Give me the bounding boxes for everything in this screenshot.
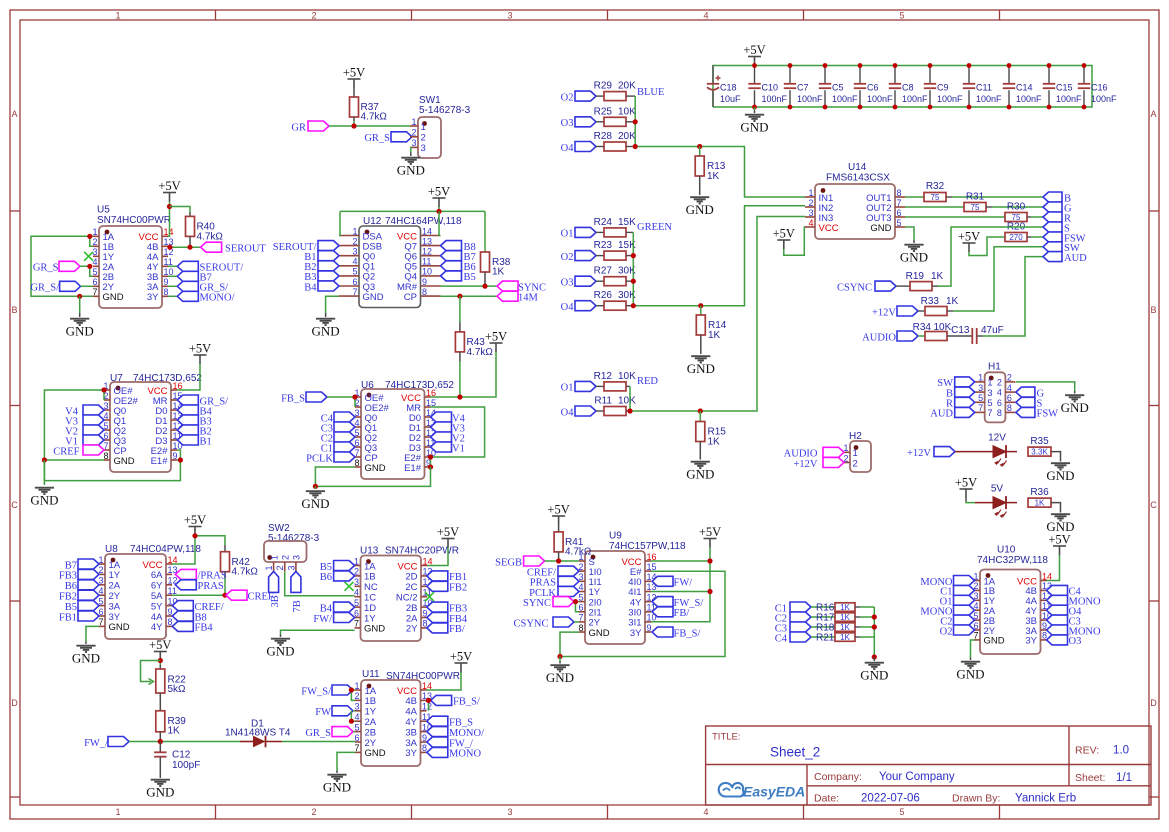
svg-text:O2: O2 <box>561 252 574 263</box>
svg-text:FW_/: FW_/ <box>449 738 473 749</box>
svg-text:GR_S: GR_S <box>364 133 390 144</box>
svg-text:2Y: 2Y <box>365 738 377 749</box>
resistor R43 4.7k (from 14M/CP) <box>459 296 461 322</box>
svg-text:6: 6 <box>92 277 97 287</box>
svg-text:A: A <box>11 109 17 119</box>
svg-text:AUDIO: AUDIO <box>862 332 896 343</box>
svg-text:1B: 1B <box>365 696 377 707</box>
svg-text:R29: R29 <box>594 81 613 92</box>
svg-text:B1: B1 <box>200 436 212 447</box>
wire FW_S to pins 1-2 <box>353 689 355 691</box>
svg-text:8: 8 <box>168 617 173 627</box>
resistor R24 15K <box>596 231 604 233</box>
svg-text:+5V: +5V <box>437 525 459 539</box>
netflags U13 right <box>427 571 448 581</box>
junction U5 pin1 <box>87 234 92 239</box>
svg-text:REV:: REV: <box>1075 745 1099 757</box>
svg-text:C12: C12 <box>172 750 191 761</box>
wire +5V to U14 VCC pin4 <box>784 227 805 255</box>
svg-text:O3: O3 <box>561 278 574 289</box>
resistor R19 1K <box>896 285 910 287</box>
svg-text:7: 7 <box>92 287 97 297</box>
ground (U7) <box>43 460 45 485</box>
svg-text:GND: GND <box>686 202 714 217</box>
resistor R30 75 <box>905 216 1005 218</box>
resistor R12 10K <box>596 385 604 387</box>
svg-text:8: 8 <box>354 458 359 468</box>
svg-text:7: 7 <box>973 631 978 641</box>
resistor R15 1K <box>699 411 701 422</box>
netflag SEROUT <box>201 242 222 252</box>
svg-text:R21: R21 <box>816 633 835 644</box>
ground (R15) <box>691 462 710 468</box>
junction R40 bottom <box>187 245 192 250</box>
svg-text:13: 13 <box>422 236 432 246</box>
svg-text:2: 2 <box>311 11 316 21</box>
svg-text:1: 1 <box>269 555 279 560</box>
svg-text:4A: 4A <box>405 707 417 718</box>
svg-text:SEROUT: SEROUT <box>225 244 266 255</box>
svg-text:4: 4 <box>997 388 1002 398</box>
svg-text:12: 12 <box>422 247 432 257</box>
svg-text:11: 11 <box>422 257 431 267</box>
junction R15 <box>698 408 703 413</box>
svg-text:GND: GND <box>870 223 891 234</box>
svg-text:B5: B5 <box>464 272 476 283</box>
svg-text:3Y: 3Y <box>630 628 642 639</box>
netflags U8 right CREF/ B8 FB4 <box>172 601 193 611</box>
svg-text:3A: 3A <box>405 738 417 749</box>
svg-text:GND: GND <box>1061 400 1089 415</box>
netflag /PRAS (U8 pin13) <box>175 569 196 579</box>
wire R33 to SW <box>947 310 953 312</box>
svg-text:5: 5 <box>978 393 983 403</box>
svg-text:4: 4 <box>92 257 97 267</box>
netflags U11 right <box>427 716 448 726</box>
svg-text:1Y: 1Y <box>109 570 121 581</box>
svg-text:EasyEDA: EasyEDA <box>743 784 805 800</box>
svg-text:9: 9 <box>164 277 169 287</box>
svg-text:VCC: VCC <box>142 560 162 571</box>
svg-text:Your Company: Your Company <box>879 771 955 783</box>
svg-text:9: 9 <box>168 607 173 617</box>
capacitor C16 100nF <box>1083 66 1085 84</box>
svg-text:C7: C7 <box>797 83 809 93</box>
svg-text:75: 75 <box>971 203 980 212</box>
resistor R11 10K <box>596 410 604 412</box>
wire U7 pins 9-10 ground loop <box>44 450 180 481</box>
wire U5 pin13 to SEROUT <box>168 246 201 248</box>
wire R35 to gnd <box>1051 452 1061 462</box>
svg-text:7: 7 <box>354 743 359 753</box>
wire +5V to U7 VCC <box>177 364 200 390</box>
svg-text:5: 5 <box>899 807 904 817</box>
svg-text:5kΩ: 5kΩ <box>168 684 187 695</box>
svg-text:5: 5 <box>897 218 902 228</box>
wire GR_S to pins 4-5 <box>80 266 93 276</box>
svg-text:AUD: AUD <box>1064 253 1087 264</box>
wire GR to SW1 pin1 <box>329 125 410 127</box>
svg-text:6: 6 <box>997 398 1002 408</box>
ground (H1) <box>1074 391 1076 394</box>
netflags U9 right <box>652 576 673 586</box>
svg-text:GND: GND <box>984 636 1005 647</box>
svg-text:O1: O1 <box>561 229 574 240</box>
capacitor C13 47uF <box>947 335 972 337</box>
svg-text:1: 1 <box>264 565 274 570</box>
potentiometer R22 5k <box>159 665 161 669</box>
svg-text:3: 3 <box>352 247 357 257</box>
svg-text:6: 6 <box>578 603 583 613</box>
resistor R23 15K <box>596 255 604 257</box>
svg-text:14: 14 <box>422 226 432 236</box>
svg-text:+5V: +5V <box>1048 533 1070 547</box>
svg-text:+5V: +5V <box>149 638 171 652</box>
no-connect X U5 pin3 <box>84 252 93 261</box>
wire GREEN net bus <box>633 206 805 306</box>
netflag SYNC <box>497 281 518 291</box>
resistor R40 4.7k <box>189 212 191 216</box>
svg-text:7B: 7B <box>292 600 303 612</box>
resistor R14 1K <box>700 306 702 315</box>
ground (R36) <box>1051 514 1070 520</box>
svg-text:PRAS: PRAS <box>198 581 224 592</box>
svg-text:FW/: FW/ <box>313 614 332 625</box>
svg-text:A: A <box>1150 109 1156 119</box>
svg-text:7: 7 <box>578 613 583 623</box>
svg-text:B6: B6 <box>320 572 332 583</box>
svg-text:7: 7 <box>978 403 983 413</box>
svg-text:FW/: FW/ <box>674 578 693 589</box>
svg-text:3: 3 <box>507 11 512 21</box>
svg-text:MONO/: MONO/ <box>449 728 484 739</box>
capacitor C12 100pF <box>159 742 161 753</box>
svg-text:FB_S/: FB_S/ <box>453 697 480 708</box>
netflags U6 right V4-V1 <box>431 412 452 422</box>
svg-text:E1#: E1# <box>404 463 422 474</box>
svg-text:B4: B4 <box>320 603 333 614</box>
svg-text:100pF: 100pF <box>172 760 200 771</box>
netflags U8 left <box>78 559 99 569</box>
svg-text:4.7kΩ: 4.7kΩ <box>232 567 259 578</box>
svg-text:B4: B4 <box>304 282 317 293</box>
svg-text:1K: 1K <box>931 271 944 282</box>
wire U9 gnd pin8 <box>560 632 579 656</box>
svg-text:GND: GND <box>364 624 385 635</box>
resistor R28 20K <box>596 146 604 148</box>
svg-text:1/1: 1/1 <box>1116 772 1132 784</box>
ground (R35) <box>1051 463 1070 469</box>
svg-text:1: 1 <box>808 188 813 198</box>
svg-text:8: 8 <box>997 408 1002 418</box>
svg-text:2: 2 <box>275 565 285 570</box>
svg-text:+5V: +5V <box>343 66 365 80</box>
svg-text:R19: R19 <box>906 271 925 282</box>
svg-text:GND: GND <box>266 644 294 659</box>
ground (U13) <box>280 635 282 638</box>
svg-text:C9: C9 <box>937 83 949 93</box>
svg-text:5: 5 <box>92 267 97 277</box>
svg-text:Date:: Date: <box>814 793 839 805</box>
wire U8 pin11 to CREF <box>172 594 225 596</box>
svg-text:H1: H1 <box>988 362 1001 373</box>
svg-text:AUDIO: AUDIO <box>784 449 818 460</box>
svg-text:5: 5 <box>352 267 357 277</box>
output connector netflags B G R S FSW SW AUD <box>1043 192 1062 202</box>
wire +5V to R40 <box>170 207 191 213</box>
svg-text:+5V: +5V <box>955 476 977 490</box>
svg-text:4A: 4A <box>151 612 163 623</box>
svg-text:2A: 2A <box>406 613 418 624</box>
resistor R16 1K <box>811 606 835 608</box>
ground (U12) <box>325 313 327 317</box>
svg-text:GND: GND <box>323 780 351 795</box>
svg-text:5Y: 5Y <box>151 601 163 612</box>
svg-text:R33: R33 <box>921 296 940 307</box>
netflags U7 right <box>177 395 198 405</box>
svg-text:AUD: AUD <box>930 409 953 420</box>
svg-text:4: 4 <box>354 588 359 598</box>
svg-text:C: C <box>1150 500 1157 510</box>
resistor R27 30K <box>596 280 604 282</box>
svg-text:15K: 15K <box>618 217 636 228</box>
wire U10 gnd <box>971 640 975 658</box>
svg-text:GND: GND <box>363 292 384 303</box>
svg-text:2Y: 2Y <box>109 591 121 602</box>
svg-text:4B: 4B <box>405 696 417 707</box>
svg-text:1: 1 <box>411 117 416 127</box>
svg-text:C18: C18 <box>720 83 737 93</box>
title block frame <box>706 726 1151 805</box>
svg-text:+5V: +5V <box>547 503 569 517</box>
svg-text:1Y: 1Y <box>365 707 377 718</box>
svg-text:+5V: +5V <box>958 230 980 244</box>
wire SW1 pin3 to gnd <box>409 147 412 152</box>
svg-text:7: 7 <box>354 619 359 629</box>
svg-text:1N4148WS T4: 1N4148WS T4 <box>225 728 291 739</box>
svg-text:47uF: 47uF <box>981 325 1004 336</box>
svg-text:10K: 10K <box>934 322 952 333</box>
svg-text:/PRAS: /PRAS <box>198 571 227 582</box>
svg-text:GND: GND <box>365 463 386 474</box>
svg-text:GND: GND <box>956 667 984 682</box>
svg-text:FB_S/: FB_S/ <box>674 628 701 639</box>
capacitor C11 100nF <box>968 66 970 84</box>
ground (R13) <box>690 197 709 203</box>
svg-text:10K: 10K <box>618 371 636 382</box>
svg-text:4: 4 <box>703 807 708 817</box>
wire FW to pins 3-4 <box>353 710 355 712</box>
resistor R42 4.7k <box>224 545 226 552</box>
svg-text:GND: GND <box>30 493 58 508</box>
svg-text:FW_S/: FW_S/ <box>301 686 331 697</box>
svg-text:1B: 1B <box>364 572 376 583</box>
svg-text:2: 2 <box>311 807 316 817</box>
svg-text:4Y: 4Y <box>151 622 163 633</box>
svg-text:C6: C6 <box>867 83 879 93</box>
wire BLUE net bus <box>635 96 805 197</box>
svg-text:FB4: FB4 <box>195 623 214 634</box>
svg-text:Drawn By:: Drawn By: <box>952 793 1000 805</box>
svg-text:7: 7 <box>897 198 902 208</box>
svg-text:4: 4 <box>808 218 813 228</box>
svg-text:4Y: 4Y <box>405 717 417 728</box>
svg-text:GND: GND <box>114 456 135 467</box>
svg-text:3: 3 <box>354 577 359 587</box>
svg-text:GND: GND <box>312 324 340 339</box>
svg-text:GR: GR <box>291 123 306 134</box>
svg-text:4.7kΩ: 4.7kΩ <box>197 232 224 243</box>
svg-text:8: 8 <box>578 623 583 633</box>
wire D1 to U11 pin6 <box>282 741 355 743</box>
svg-text:8: 8 <box>1007 403 1012 413</box>
svg-text:2: 2 <box>808 198 813 208</box>
svg-text:GND: GND <box>860 668 888 683</box>
svg-text:3B: 3B <box>270 595 281 607</box>
ground (cap bank) <box>754 107 756 110</box>
svg-text:Yannick Erb: Yannick Erb <box>1015 793 1076 805</box>
wire U5 gnd down <box>79 296 81 313</box>
svg-text:2: 2 <box>281 555 291 560</box>
wire R19 to S <box>932 285 938 287</box>
svg-text:+12V: +12V <box>907 448 931 459</box>
svg-text:MONO/: MONO/ <box>200 293 235 304</box>
svg-text:5A: 5A <box>151 591 163 602</box>
svg-text:R36: R36 <box>1030 487 1049 498</box>
svg-text:SN74HC00PWR: SN74HC00PWR <box>97 215 171 226</box>
svg-text:CSYNC: CSYNC <box>513 618 548 629</box>
svg-text:100nF: 100nF <box>1091 94 1117 104</box>
svg-text:CP: CP <box>404 292 417 303</box>
ground (U10) <box>970 658 972 661</box>
svg-text:BLUE: BLUE <box>637 87 664 98</box>
svg-text:6: 6 <box>354 733 359 743</box>
svg-text:3B: 3B <box>405 727 417 738</box>
svg-text:FB3: FB3 <box>449 603 467 614</box>
svg-text:100nF: 100nF <box>832 94 858 104</box>
resistor R13 1K <box>699 147 701 157</box>
svg-text:GND: GND <box>686 467 714 482</box>
cap bank top/bottom rails <box>713 66 1092 108</box>
wire U14 GND pin5 <box>905 227 914 240</box>
svg-text:FB2: FB2 <box>59 592 77 603</box>
netflags U9 left <box>558 566 579 576</box>
svg-text:O2: O2 <box>561 92 574 103</box>
netflags U12 right outputs <box>441 241 462 251</box>
svg-text:2Y: 2Y <box>406 624 418 635</box>
netflags U5 right outputs <box>168 265 177 267</box>
svg-text:Sheet:: Sheet: <box>1075 772 1105 784</box>
svg-text:B: B <box>11 305 17 315</box>
resistor R41 4.7k <box>558 525 560 532</box>
svg-text:100nF: 100nF <box>867 94 893 104</box>
svg-text:FSW: FSW <box>1037 409 1059 420</box>
wire R16-R21 common to gnd <box>873 607 875 657</box>
svg-text:9: 9 <box>647 623 652 633</box>
svg-text:C14: C14 <box>1016 83 1033 93</box>
wire R22 wiper arrow <box>141 661 161 682</box>
wire +5V to U8 VCC and R42 <box>194 536 196 538</box>
svg-text:1C: 1C <box>364 593 376 604</box>
junction R43/VCC <box>457 394 462 399</box>
svg-text:U14: U14 <box>848 162 867 173</box>
svg-text:2: 2 <box>421 133 426 144</box>
svg-text:SEGB: SEGB <box>495 557 522 568</box>
wire U11 gnd <box>337 752 355 770</box>
svg-text:3: 3 <box>411 138 416 148</box>
svg-text:1: 1 <box>115 11 120 21</box>
capacitor C9 100nF <box>929 66 931 84</box>
svg-text:GND: GND <box>1046 468 1074 483</box>
svg-text:74HC32PW,118: 74HC32PW,118 <box>977 555 1048 566</box>
svg-text:2C: 2C <box>405 582 417 593</box>
capacitor C7 100nF <box>789 66 791 84</box>
junction R37/GR <box>351 123 356 128</box>
svg-text:TITLE:: TITLE: <box>712 732 741 743</box>
svg-text:10uF: 10uF <box>720 94 741 104</box>
svg-text:GND: GND <box>146 785 174 800</box>
resistor R34 10K <box>918 335 925 337</box>
junction +5V <box>167 204 172 209</box>
netflag 14M <box>497 291 518 301</box>
svg-text:5: 5 <box>899 11 904 21</box>
svg-text:+5V: +5V <box>428 185 450 199</box>
svg-text:+5V: +5V <box>450 650 472 664</box>
wire MR# to SYNC <box>441 285 498 287</box>
svg-text:10K: 10K <box>618 396 636 407</box>
wire H1 pin2 to gnd <box>1016 382 1075 391</box>
wire FW_/ to D1 <box>129 741 240 743</box>
wire +5V to U11 VCC <box>460 672 462 673</box>
capacitor C14 100nF <box>1008 66 1010 84</box>
resistor R25 10K <box>596 121 604 123</box>
svg-text:2D: 2D <box>405 572 417 583</box>
capacitor C18 10uF <box>712 66 714 84</box>
svg-text:100nF: 100nF <box>1016 94 1042 104</box>
svg-text:R35: R35 <box>1030 436 1049 447</box>
svg-text:1: 1 <box>421 122 426 133</box>
svg-text:FB4: FB4 <box>449 614 468 625</box>
svg-text:R28: R28 <box>594 131 613 142</box>
svg-text:2: 2 <box>1007 373 1012 383</box>
svg-text:2B: 2B <box>406 603 418 614</box>
svg-text:+5V: +5V <box>699 525 721 539</box>
svg-text:5: 5 <box>578 592 583 602</box>
svg-text:3: 3 <box>978 383 983 393</box>
no-connect X U13 pin11 <box>425 592 434 601</box>
resistor R39 1K <box>156 711 165 732</box>
resistor R26 30K <box>596 305 604 307</box>
svg-text:GND: GND <box>301 496 329 511</box>
svg-text:B5: B5 <box>320 562 332 573</box>
svg-text:O2: O2 <box>940 626 953 637</box>
wire +5V to U10 VCC <box>1047 555 1060 581</box>
svg-text:FW: FW <box>315 707 331 718</box>
svg-text:6: 6 <box>352 277 357 287</box>
svg-text:4.7kΩ: 4.7kΩ <box>565 547 592 558</box>
svg-text:100nF: 100nF <box>797 94 823 104</box>
svg-text:O1: O1 <box>561 383 574 394</box>
svg-text:GND: GND <box>397 163 425 178</box>
svg-text:FB2: FB2 <box>449 583 467 594</box>
svg-text:C: C <box>11 500 18 510</box>
resistor R37 4.7k <box>353 88 355 97</box>
wire U8 gnd <box>86 626 99 641</box>
svg-text:U11: U11 <box>362 669 380 680</box>
wire +5V to R22 <box>159 661 161 666</box>
svg-text:6A: 6A <box>151 570 163 581</box>
svg-text:4: 4 <box>354 712 359 722</box>
